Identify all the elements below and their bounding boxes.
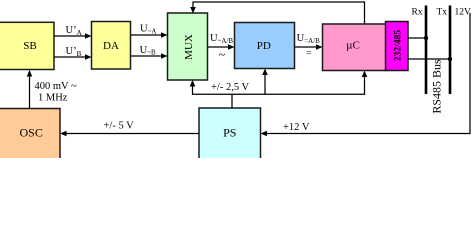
svg-text:12V: 12V — [455, 7, 472, 17]
wire SB to DA signal U'A — [54, 25, 92, 39]
12V label — [455, 7, 472, 17]
block PS — [199, 108, 261, 160]
svg-text:Tx: Tx — [437, 7, 448, 17]
svg-text:1 MHz: 1 MHz — [38, 92, 68, 103]
block SB — [0, 22, 54, 69]
block OSC — [0, 109, 60, 161]
Tx bus line — [437, 6, 451, 95]
svg-text:U~A: U~A — [140, 24, 156, 36]
wire DA to MUX signal U~A — [131, 24, 168, 38]
svg-text:OSC: OSC — [20, 125, 43, 139]
svg-text:Rx: Rx — [412, 7, 423, 17]
svg-text:U’A: U’A — [66, 25, 82, 37]
svg-text:PS: PS — [223, 125, 236, 139]
svg-text:DA: DA — [103, 40, 119, 52]
wire PD to uC signal U=A/B — [295, 33, 323, 59]
RS485 Bus label — [429, 59, 443, 114]
svg-text:U’B: U’B — [66, 46, 82, 58]
svg-text:U~A/B: U~A/B — [210, 33, 233, 45]
wire PS to OSC +/- 5 V — [60, 120, 199, 136]
svg-text:SB: SB — [23, 40, 36, 52]
svg-text:~: ~ — [219, 48, 226, 62]
wire PS supply rail +/- 2,5 V to MUX PD uC — [190, 69, 368, 109]
svg-text:400 mV ~: 400 mV ~ — [35, 81, 78, 92]
wire MUX to PD signal U~A/B — [208, 33, 235, 62]
wire uC control rail to MUX top — [190, 2, 364, 24]
svg-text:RS485 Bus: RS485 Bus — [429, 59, 443, 114]
block MUX — [168, 13, 208, 80]
wire DA to MUX signal U~B — [131, 45, 168, 59]
block DA — [92, 22, 131, 70]
svg-text:U~B: U~B — [140, 45, 156, 57]
svg-text:+/- 5 V: +/- 5 V — [104, 120, 135, 131]
block 232/485 converter — [386, 22, 409, 71]
wire 232/485 to Tx bus — [408, 57, 452, 61]
svg-text:PD: PD — [257, 40, 271, 52]
wire OSC to SB 400mV 1MHz — [27, 70, 77, 109]
svg-text:+/- 2,5 V: +/- 2,5 V — [211, 82, 250, 93]
svg-text:=: = — [306, 49, 311, 59]
Rx bus line — [412, 6, 427, 95]
wire 232/485 to Rx bus — [408, 36, 428, 40]
svg-text:+12 V: +12 V — [283, 122, 310, 133]
svg-text:232/485: 232/485 — [393, 30, 403, 61]
wire 12V supply to PS — [261, 13, 471, 136]
svg-text:µC: µC — [346, 39, 360, 51]
block PD — [235, 23, 295, 69]
svg-text:MUX: MUX — [183, 34, 195, 60]
wire SB to DA signal U'B — [54, 46, 92, 60]
block uC microcontroller — [323, 24, 387, 71]
svg-text:U=A/B: U=A/B — [297, 33, 321, 45]
